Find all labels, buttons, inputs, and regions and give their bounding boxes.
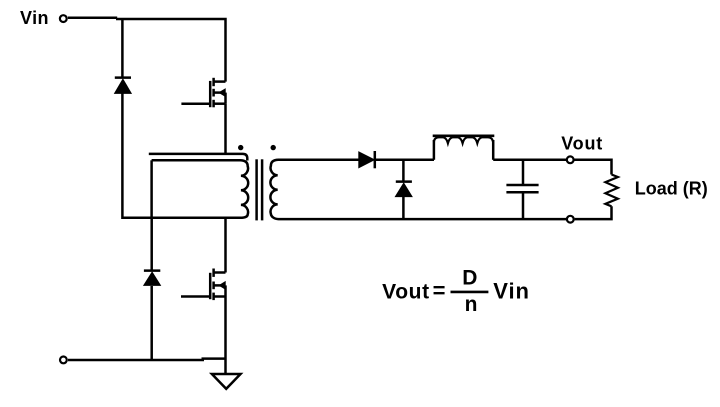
wire bottom rail right segment [202, 357, 226, 360]
wire lower output terminal to load [575, 206, 612, 219]
wire Q2 drain stem from primary bottom [224, 218, 227, 273]
gate lead [181, 295, 210, 298]
diode D4 (freewheeling) [395, 182, 412, 197]
core bar [433, 135, 495, 138]
svg-text:=: = [433, 278, 446, 303]
wire D4 cathode stem [402, 160, 405, 181]
wire capacitor bottom stub [522, 192, 525, 219]
wire primary loop left edge [150, 160, 153, 218]
source connection [214, 295, 226, 298]
wire D2 anode to bottom rail [150, 286, 153, 360]
transformer T1 primary winding with top and bottom leads [122, 160, 248, 218]
transistor Q1 (N-MOSFET) [181, 78, 225, 108]
svg-text:Vout: Vout [561, 134, 603, 154]
body connection with arrow [214, 91, 226, 94]
wire inductor to Vout terminal [493, 159, 566, 162]
left riser [433, 140, 436, 160]
gate bar [209, 273, 212, 299]
terminal lower-left (open circle) [60, 357, 67, 364]
drain connection [214, 271, 226, 274]
gate bar [209, 81, 212, 107]
svg-text:n: n [465, 293, 478, 316]
transformer core lines [255, 159, 258, 220]
diode D1 [115, 78, 132, 94]
wire D1 cathode stem [121, 19, 124, 77]
wire top rail right segment with corner down to Q1 drain [116, 19, 226, 82]
body to source vertical [224, 93, 227, 104]
body to source vertical [224, 285, 227, 296]
drain connection [214, 80, 226, 83]
phasing dot primary [238, 145, 243, 150]
wire capacitor top stub [522, 160, 525, 185]
formula fraction bar [451, 291, 489, 294]
resistor Load (zigzag) [605, 175, 618, 207]
terminal Vout (open circle) [567, 156, 574, 163]
terminal Vin (open circle) [60, 15, 67, 22]
wire Q2 source down to ground [224, 297, 227, 375]
body connection with arrow [214, 284, 226, 287]
channel segments [212, 269, 215, 277]
wire D4 anode stem [402, 197, 405, 220]
svg-text:Vin: Vin [493, 278, 530, 303]
wire D2 cathode stem from primary bottom [150, 218, 153, 270]
diode D2 [144, 271, 161, 286]
wire D3 cathode to inductor riser [375, 159, 434, 162]
wire Vout terminal to load corner [575, 160, 612, 175]
source connection [214, 102, 226, 105]
channel segments [212, 78, 215, 86]
svg-text:Vout: Vout [382, 280, 430, 303]
transformer T1 secondary winding with top and bottom leads [270, 160, 566, 219]
ground symbol [212, 374, 241, 389]
right riser [492, 140, 495, 160]
terminal lower output (open circle) [567, 216, 574, 223]
svg-text:D: D [462, 266, 477, 289]
transistor Q2 (N-MOSFET) [181, 269, 226, 301]
wire bottom rail left segment [68, 359, 204, 362]
capacitor C [506, 185, 538, 192]
phasing dot secondary [271, 145, 276, 150]
svg-text:Load (R): Load (R) [635, 178, 708, 198]
wire Q1 source down to upper link line [224, 104, 227, 154]
wire top rail left segment [68, 16, 117, 19]
wire upper link line into primary winding top [149, 154, 248, 161]
inductor L [433, 136, 495, 160]
wire D1 anode down and corner to primary bottom [122, 93, 151, 217]
svg-text:Vin: Vin [20, 8, 49, 28]
winding scallops [434, 137, 493, 143]
diode D3 (series rectifier) [359, 151, 375, 168]
gate lead [181, 102, 210, 105]
